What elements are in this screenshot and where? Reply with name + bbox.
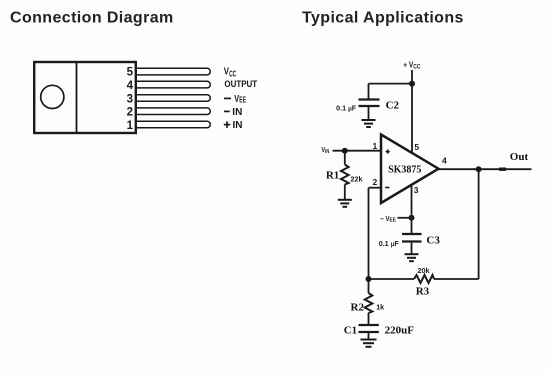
svg-text:R2: R2 bbox=[351, 302, 365, 314]
svg-text:4: 4 bbox=[127, 80, 134, 92]
svg-text:OUTPUT: OUTPUT bbox=[224, 79, 258, 90]
svg-text:Connection Diagram: Connection Diagram bbox=[10, 10, 174, 27]
svg-text:C3: C3 bbox=[426, 235, 440, 247]
svg-text:3: 3 bbox=[414, 185, 419, 195]
svg-text:0.1 μF: 0.1 μF bbox=[336, 104, 357, 113]
svg-text:5: 5 bbox=[414, 142, 419, 152]
svg-text:220uF: 220uF bbox=[385, 325, 415, 337]
svg-text:V: V bbox=[224, 66, 229, 77]
svg-text:3: 3 bbox=[127, 93, 133, 105]
svg-text:R3: R3 bbox=[416, 286, 430, 298]
svg-text:SK3875: SK3875 bbox=[388, 164, 421, 175]
svg-text:20k: 20k bbox=[418, 266, 430, 275]
svg-text:IN: IN bbox=[232, 107, 242, 118]
svg-text:1: 1 bbox=[127, 120, 134, 132]
svg-text:C2: C2 bbox=[386, 99, 400, 111]
svg-text:– VEE: – VEE bbox=[380, 215, 396, 223]
svg-text:EE: EE bbox=[239, 96, 246, 104]
svg-text:5: 5 bbox=[127, 67, 134, 79]
svg-text:2: 2 bbox=[373, 177, 378, 187]
svg-text:1: 1 bbox=[373, 141, 378, 151]
svg-text:22k: 22k bbox=[351, 175, 363, 184]
svg-text:2: 2 bbox=[127, 107, 133, 119]
svg-text:4: 4 bbox=[442, 156, 447, 166]
svg-text:Out: Out bbox=[510, 151, 529, 163]
svg-text:0.1 μF: 0.1 μF bbox=[379, 239, 400, 248]
svg-text:R1: R1 bbox=[326, 169, 339, 181]
svg-text:1k: 1k bbox=[376, 302, 384, 311]
svg-text:CC: CC bbox=[229, 70, 236, 78]
svg-text:V: V bbox=[234, 93, 239, 104]
svg-text:C1: C1 bbox=[344, 325, 357, 337]
svg-text:Typical Applications: Typical Applications bbox=[302, 10, 464, 27]
svg-text:IN: IN bbox=[233, 120, 243, 131]
